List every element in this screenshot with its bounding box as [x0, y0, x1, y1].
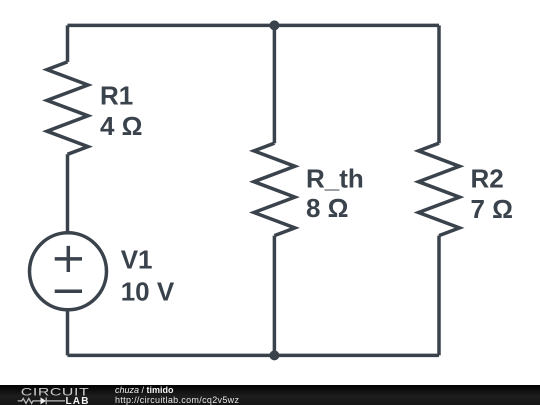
voltage source V1	[30, 233, 107, 310]
wire middle top lead	[273, 25, 277, 143]
node top junction	[269, 20, 279, 30]
svg-text:4 Ω: 4 Ω	[100, 111, 143, 141]
svg-text:10 V: 10 V	[121, 277, 175, 307]
wire bottom	[68, 354, 440, 358]
resistor R_th	[254, 143, 295, 235]
svg-text:R2: R2	[471, 164, 504, 194]
logo diode triangle	[41, 397, 47, 404]
svg-text:LAB: LAB	[66, 396, 90, 405]
svg-text:R1: R1	[100, 80, 133, 110]
wire right top lead	[437, 25, 441, 143]
wire left top lead	[66, 25, 70, 62]
resistor R1	[47, 62, 88, 154]
wire R1 to V1	[66, 154, 70, 233]
svg-text:R_th: R_th	[306, 163, 364, 193]
wire V1 to bottom	[66, 310, 70, 356]
node bottom junction	[269, 350, 279, 360]
svg-text:7 Ω: 7 Ω	[471, 194, 514, 224]
logo resistor-diode symbol	[18, 397, 65, 404]
wire right bottom lead	[437, 236, 441, 356]
V1 polarity minus mark	[55, 290, 82, 294]
V1 polarity plus mark	[55, 246, 82, 272]
credit text	[115, 385, 239, 405]
resistor R2	[419, 143, 460, 235]
footer bar	[0, 385, 540, 405]
wire middle bottom lead	[273, 236, 277, 356]
svg-text:8 Ω: 8 Ω	[306, 193, 349, 223]
wire top	[68, 24, 440, 28]
svg-text:V1: V1	[121, 244, 153, 274]
